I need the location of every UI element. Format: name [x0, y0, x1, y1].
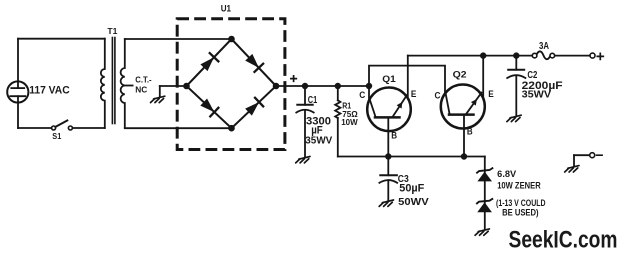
svg-text:10W ZENER: 10W ZENER	[497, 180, 541, 190]
svg-text:S1: S1	[52, 131, 61, 141]
svg-text:6.8V: 6.8V	[497, 169, 516, 179]
svg-text:E: E	[411, 89, 417, 100]
svg-text:C2: C2	[527, 70, 537, 81]
svg-text:NC: NC	[135, 85, 147, 94]
svg-text:Q2: Q2	[453, 70, 467, 81]
svg-text:U1: U1	[221, 4, 232, 15]
svg-text:35WV: 35WV	[522, 90, 552, 101]
svg-text:T1: T1	[107, 26, 117, 36]
svg-text:C.T.-: C.T.-	[135, 75, 152, 84]
svg-text:E: E	[488, 89, 494, 100]
svg-text:C1: C1	[308, 95, 318, 106]
svg-text:35WV: 35WV	[305, 136, 332, 147]
svg-text:117 VAC: 117 VAC	[29, 84, 70, 96]
svg-text:C: C	[435, 91, 441, 102]
svg-text:B: B	[391, 131, 397, 142]
svg-text:C: C	[359, 90, 365, 101]
svg-text:C3: C3	[398, 174, 409, 185]
svg-text:BE USED): BE USED)	[502, 208, 538, 218]
svg-text:3A: 3A	[539, 41, 549, 52]
svg-text:10W: 10W	[341, 117, 358, 127]
svg-text:50WV: 50WV	[398, 197, 429, 208]
svg-text:Q1: Q1	[382, 74, 396, 85]
svg-text:B: B	[467, 126, 473, 137]
svg-text:SeekIC.com: SeekIC.com	[509, 226, 618, 253]
